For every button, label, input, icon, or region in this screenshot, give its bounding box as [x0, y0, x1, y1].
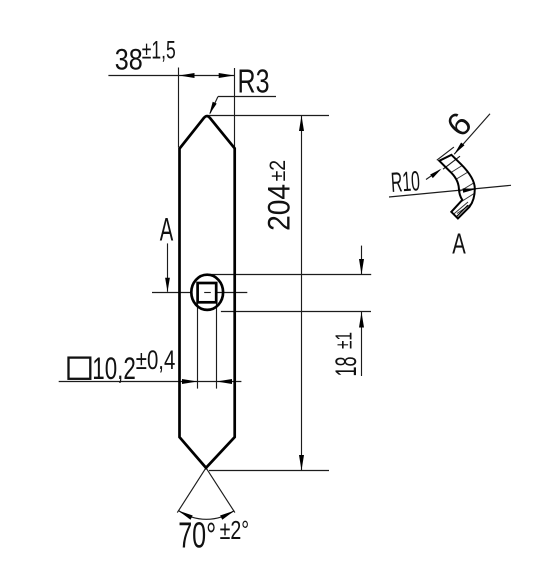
svg-text:±1,5: ±1,5 — [142, 37, 176, 65]
svg-text:204: 204 — [261, 184, 297, 231]
svg-text:±2°: ±2° — [220, 517, 250, 545]
svg-text:R3: R3 — [238, 63, 270, 100]
svg-text:18: 18 — [330, 357, 363, 377]
svg-text:10,2: 10,2 — [92, 350, 136, 386]
svg-text:R10: R10 — [390, 165, 421, 198]
svg-text:A: A — [160, 212, 174, 248]
svg-text:38: 38 — [115, 43, 143, 76]
svg-text:A: A — [452, 229, 466, 261]
svg-text:±0,4: ±0,4 — [136, 345, 176, 375]
svg-text:±1: ±1 — [331, 332, 357, 349]
svg-text:±2: ±2 — [265, 160, 290, 182]
svg-text:70°: 70° — [178, 514, 216, 555]
